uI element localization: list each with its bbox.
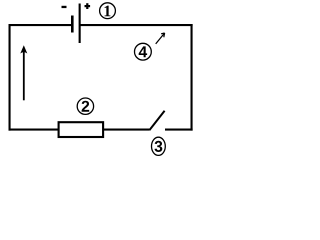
wire bottom-middle segment bbox=[104, 129, 150, 131]
resistor R bbox=[59, 122, 104, 137]
wire top-right segment bbox=[80, 24, 193, 26]
label circle 4 bbox=[135, 43, 152, 60]
battery B1 positive plate (tall) bbox=[79, 4, 81, 44]
battery minus label bbox=[62, 6, 67, 8]
pointer arrow for label 4 bbox=[156, 33, 165, 44]
wire bottom-left segment bbox=[9, 129, 59, 131]
wire right side bbox=[191, 24, 193, 131]
label circle 1 bbox=[100, 3, 116, 19]
wire left side bbox=[9, 24, 11, 131]
label circle 3 bbox=[152, 137, 166, 155]
label circle 2 bbox=[77, 98, 93, 114]
current direction arrow bbox=[20, 45, 27, 100]
wire top-left segment bbox=[9, 24, 72, 26]
battery B1 negative plate (short) bbox=[71, 16, 74, 33]
battery plus label bbox=[85, 3, 91, 9]
switch S blade bbox=[149, 111, 164, 131]
wire bottom-right segment bbox=[165, 129, 193, 131]
